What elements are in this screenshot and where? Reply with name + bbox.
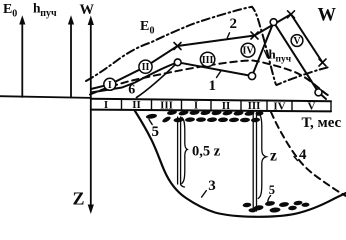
svg-text:V: V bbox=[293, 36, 301, 47]
label W right bbox=[318, 6, 337, 26]
circle marker a bbox=[174, 59, 181, 66]
svg-text:z: z bbox=[270, 148, 277, 165]
curve 6 initial stroke from band bbox=[137, 62, 178, 97]
label Z bottom bbox=[73, 189, 85, 209]
svg-text:V: V bbox=[308, 101, 316, 113]
month band top line bbox=[91, 99, 331, 101]
month band numerals I II III I II III IV V bbox=[104, 99, 316, 113]
svg-text:II: II bbox=[142, 62, 150, 73]
label E0 left bbox=[3, 2, 17, 20]
dashed thaw curve 4 bbox=[271, 112, 346, 196]
svg-text:пуч: пуч bbox=[40, 8, 57, 19]
circled numeral IV bbox=[241, 43, 255, 57]
svg-text:W: W bbox=[318, 6, 337, 26]
svg-text:0: 0 bbox=[12, 9, 17, 20]
label 4 with leader bbox=[294, 147, 307, 163]
solid curve W with x markers (through circled I and II) bbox=[91, 14, 323, 89]
label E0 center bbox=[140, 19, 155, 37]
svg-text:Т, мес: Т, мес bbox=[302, 115, 342, 131]
svg-text:5: 5 bbox=[152, 124, 160, 140]
svg-text:4: 4 bbox=[299, 147, 307, 163]
label T, mes bbox=[302, 115, 342, 131]
svg-text:0,5 z: 0,5 z bbox=[192, 144, 221, 160]
svg-text:III: III bbox=[248, 100, 261, 112]
label 2 with leader bbox=[227, 16, 237, 38]
x marker 3 bbox=[288, 11, 295, 18]
x marker 4 bbox=[319, 59, 326, 66]
label h_puch left bbox=[33, 1, 57, 19]
svg-text:I: I bbox=[108, 80, 112, 91]
svg-text:0: 0 bbox=[150, 26, 155, 37]
svg-text:5: 5 bbox=[269, 183, 275, 197]
svg-text:пуч: пуч bbox=[276, 55, 292, 65]
svg-text:IV: IV bbox=[242, 46, 254, 57]
label W left bbox=[80, 2, 95, 18]
brace 0.5z bbox=[182, 118, 188, 184]
svg-text:2: 2 bbox=[230, 16, 238, 32]
label 6 bbox=[128, 83, 135, 98]
label 5 bottom with leader bbox=[268, 183, 275, 202]
measure bar z (double line) bbox=[253, 113, 256, 212]
svg-text:III: III bbox=[160, 100, 173, 112]
month band cell dividers bbox=[122, 99, 332, 111]
svg-text:II: II bbox=[222, 100, 231, 112]
svg-text:Z: Z bbox=[73, 189, 85, 209]
svg-text:III: III bbox=[202, 55, 214, 66]
circle marker d bbox=[315, 89, 322, 96]
circled numeral III bbox=[200, 52, 214, 66]
svg-text:W: W bbox=[80, 2, 95, 18]
label 1 with leader bbox=[209, 70, 222, 94]
svg-text:1: 1 bbox=[209, 78, 217, 94]
solid curve 6 with circle markers bbox=[91, 22, 326, 99]
axis E0 arrow bbox=[19, 15, 25, 97]
dash-dot envelope curve E0 bbox=[86, 7, 331, 85]
svg-text:6: 6 bbox=[128, 83, 135, 98]
label z bbox=[270, 148, 277, 165]
circle marker b bbox=[248, 72, 255, 79]
svg-text:E: E bbox=[140, 19, 149, 34]
svg-text:I: I bbox=[194, 100, 198, 112]
label h_puch right with tick bbox=[265, 47, 292, 65]
axis Z arrow (vertical main axis down part) bbox=[88, 99, 94, 214]
x marker 2 bbox=[251, 32, 258, 39]
label 5 top with leader bbox=[149, 120, 159, 141]
measure bar 0.5z (double line) bbox=[178, 117, 185, 187]
circle marker c (peak) bbox=[270, 19, 277, 26]
ellipse cluster bottom bbox=[243, 200, 310, 213]
ellipse cluster top (permafrost lenses) bbox=[146, 110, 264, 124]
svg-text:I: I bbox=[104, 99, 108, 111]
label 3 with leader bbox=[202, 178, 216, 197]
axis W arrow (vertical main axis up part) bbox=[88, 16, 94, 100]
month band bottom line bbox=[91, 110, 331, 112]
brace z bbox=[258, 114, 266, 199]
svg-text:IV: IV bbox=[273, 100, 285, 112]
svg-text:3: 3 bbox=[208, 178, 216, 194]
dashed curve h_puch (upper) bbox=[90, 60, 330, 95]
svg-text:E: E bbox=[3, 2, 12, 17]
label 0,5 z bbox=[192, 144, 221, 160]
axis h_puch arrow bbox=[68, 15, 74, 97]
horizontal axis left segment bbox=[0, 96, 91, 98]
x marker 1 bbox=[174, 43, 181, 50]
circled numeral V bbox=[291, 35, 303, 47]
solid ground curve 3 bbox=[135, 111, 346, 217]
svg-text:II: II bbox=[132, 99, 141, 111]
circled numeral I bbox=[104, 78, 116, 91]
circled numeral II bbox=[139, 60, 152, 73]
